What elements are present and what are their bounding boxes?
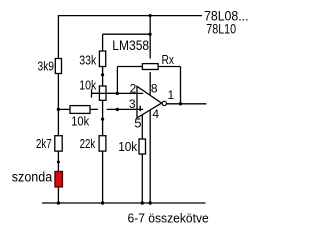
svg-text:6-7 összekötve: 6-7 összekötve [128,210,209,225]
svg-text:4: 4 [152,107,159,121]
svg-text:2k7: 2k7 [36,136,52,151]
svg-text:Rx: Rx [162,52,175,67]
svg-text:33k: 33k [79,53,96,68]
svg-text:10k: 10k [71,114,89,129]
svg-text:LM358: LM358 [112,38,149,53]
svg-text:78L10: 78L10 [206,21,236,37]
svg-text:10k: 10k [118,139,137,154]
svg-text:3k9: 3k9 [38,58,55,73]
svg-text:1: 1 [168,88,175,102]
svg-text:2: 2 [130,81,137,95]
svg-text:3: 3 [129,97,136,111]
svg-text:szonda: szonda [12,169,53,184]
svg-text:22k: 22k [80,136,96,151]
svg-text:10k: 10k [79,78,96,93]
svg-text:8: 8 [151,81,158,95]
svg-text:5: 5 [134,116,141,131]
